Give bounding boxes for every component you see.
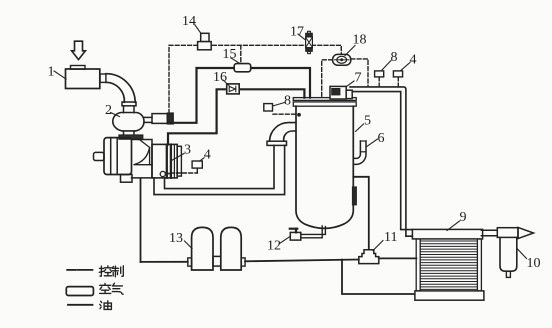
svg-text:9: 9 bbox=[460, 210, 467, 225]
svg-text:15: 15 bbox=[223, 47, 237, 62]
svg-text:6: 6 bbox=[378, 131, 385, 146]
svg-text:14: 14 bbox=[182, 14, 196, 29]
svg-text:8: 8 bbox=[391, 50, 398, 65]
svg-text:16: 16 bbox=[213, 70, 227, 85]
svg-text:10: 10 bbox=[527, 256, 541, 271]
svg-text:11: 11 bbox=[384, 230, 397, 245]
svg-text:4: 4 bbox=[204, 148, 211, 163]
svg-text:1: 1 bbox=[48, 65, 55, 80]
svg-text:2: 2 bbox=[105, 103, 112, 118]
svg-text:12: 12 bbox=[267, 239, 281, 254]
svg-text:3: 3 bbox=[184, 143, 191, 158]
svg-text:17: 17 bbox=[290, 25, 304, 40]
svg-text:4: 4 bbox=[410, 53, 417, 68]
svg-text:18: 18 bbox=[353, 33, 367, 48]
svg-text:7: 7 bbox=[355, 71, 362, 86]
svg-text:5: 5 bbox=[364, 114, 371, 129]
svg-text:8: 8 bbox=[284, 94, 291, 109]
svg-text:13: 13 bbox=[169, 231, 183, 246]
